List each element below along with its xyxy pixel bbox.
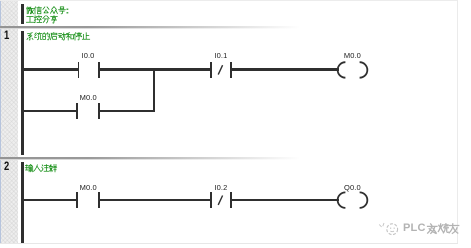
label I0.2 (214, 183, 227, 192)
branch wire: rail to M0.0 contact (23, 110, 76, 112)
label I0.1 (214, 51, 227, 60)
left blue edge strip (0, 0, 1, 243)
label M0.0 (coil) (344, 51, 361, 60)
network 2 rail (21, 162, 23, 242)
contact I0.1 right bar (230, 62, 232, 78)
contact M0.0 (rung2) right bar (98, 192, 100, 208)
rung 1 wire: rail to I0.0 (23, 68, 78, 70)
contact M0.0 (rung2) left bar (76, 192, 78, 208)
contact M0.0 right bar (98, 103, 100, 119)
junction vertical wire (153, 68, 155, 112)
label I0.0 (82, 51, 95, 60)
header comment text line2: 工控分享 (26, 15, 59, 24)
network 1 number (4, 30, 9, 42)
wire I0.1 to coil M0.0 (232, 68, 338, 70)
label M0.0 (rung2) (80, 183, 97, 192)
wire I0.2 to coil Q0.0 (232, 199, 338, 201)
network separator 1 (gradient groove) (0, 26, 320, 28)
watermark text PLC发烧友 (403, 222, 426, 234)
contact M0.0 left bar (76, 103, 78, 119)
contact I0.2 left bar (210, 192, 212, 208)
wire M0.0 to I0.2 (100, 199, 210, 201)
top faint border (0, 0, 458, 1)
network 2 number (4, 161, 9, 173)
contact I0.0 right bar (98, 62, 100, 78)
wire I0.0 to I0.1 (through junction) (100, 68, 210, 70)
label M0.0 (branch contact) (80, 93, 97, 102)
header comment bar (21, 4, 23, 25)
contact I0.2 right bar (230, 192, 232, 208)
contact I0.0 left bar (78, 62, 80, 78)
bottom faint border (0, 243, 458, 244)
rung 2 wire: rail to M0.0 (23, 199, 76, 201)
hatched margin column (1, 0, 17, 243)
contact I0.1 left bar (210, 62, 212, 78)
network 1 title: 系统的启动和停止 (26, 32, 91, 41)
right faint border (457, 0, 458, 243)
network 2 title: 输入注释 (25, 164, 59, 173)
branch wire M0.0 to junction (100, 110, 155, 112)
network separator 2 (gradient groove) (0, 157, 320, 159)
label Q0.0 (344, 183, 361, 192)
network 1 rail (21, 31, 23, 156)
watermark logo circle (376, 220, 402, 238)
header comment text line1: 微信公众号: (26, 6, 70, 15)
